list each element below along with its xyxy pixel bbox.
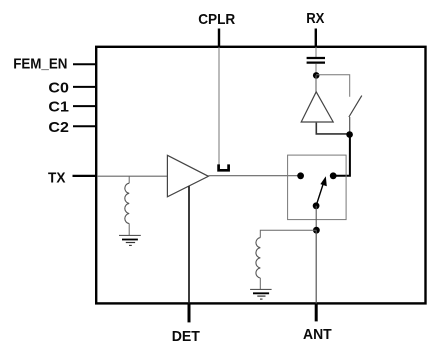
- wire TX stub: [73, 175, 98, 177]
- node RX junction: [313, 72, 320, 79]
- svg-text:CPLR: CPLR: [198, 12, 235, 28]
- node switch right pole: [330, 172, 337, 179]
- wire RX to capacitor: [315, 47, 317, 57]
- SPDT switch box: [288, 155, 347, 220]
- ground under L1: [119, 235, 141, 245]
- wire LNA output: [316, 123, 349, 134]
- svg-text:C2: C2: [48, 120, 69, 136]
- wire node to bypass branch: [316, 75, 350, 97]
- svg-text:C1: C1: [48, 100, 69, 116]
- ground under L2: [250, 289, 272, 299]
- wire junction down to switch right pole: [333, 135, 350, 176]
- wire CPLR internal line: [218, 47, 220, 166]
- svg-text:ANT: ANT: [303, 327, 332, 343]
- wire TX line into PA: [97, 175, 167, 177]
- op-amp LNA triangle: [301, 92, 333, 122]
- svg-text:TX: TX: [48, 170, 65, 186]
- wire RX stub: [315, 29, 317, 48]
- wire C2 stub: [73, 125, 97, 127]
- wire capacitor to node: [315, 64, 317, 76]
- wire DET stub below box: [188, 304, 191, 323]
- wire PA output to switch left pole: [208, 175, 300, 177]
- wire C1 stub: [73, 105, 97, 107]
- wire bypass pivot down to node: [349, 117, 351, 135]
- wire CPLR stub: [218, 29, 220, 48]
- op-amp PA triangle: [167, 155, 208, 197]
- node ANT junction: [313, 227, 320, 234]
- node LNA/bypass junction: [346, 131, 353, 138]
- wire C0 stub: [73, 86, 97, 88]
- wire RX node down to LNA input: [315, 75, 317, 92]
- svg-text:RX: RX: [306, 11, 324, 27]
- wire ANT node down: [315, 230, 317, 303]
- wire ANT stub below box: [315, 304, 318, 322]
- capacitor RX DC block: [307, 58, 325, 63]
- switch arm arrow: [316, 176, 327, 206]
- wire FEM_EN stub: [73, 63, 97, 65]
- node switch common: [313, 202, 320, 209]
- FEM module outline box: [96, 47, 425, 304]
- wire common down to ANT node: [315, 206, 317, 230]
- wire ANT node to shunt inductor: [260, 230, 316, 237]
- wire DET from PA: [188, 186, 190, 303]
- inductor L1 shunt at PA input: [125, 176, 129, 235]
- coupler pickup symbol: [219, 164, 229, 170]
- inductor L2 shunt at antenna: [256, 238, 260, 290]
- svg-text:FEM_EN: FEM_EN: [13, 57, 67, 73]
- bypass switch blade (open): [349, 96, 362, 117]
- node switch left pole: [297, 172, 304, 179]
- svg-text:DET: DET: [172, 329, 200, 345]
- svg-text:C0: C0: [48, 80, 69, 96]
